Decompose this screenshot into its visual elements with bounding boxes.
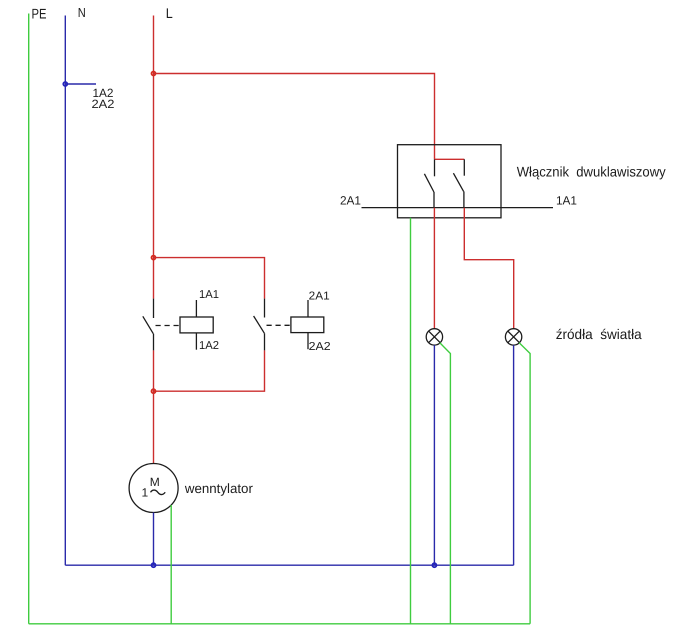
wire motor earth (green) [170,505,172,624]
coil K2 bottom lead [307,333,309,350]
svg-text:2A1: 2A1 [309,290,330,302]
pin label 1A2 (N tap) [93,86,114,100]
pin label 2A1 (switch left) [340,193,361,207]
svg-text:L: L [166,5,173,21]
svg-text:PE: PE [32,6,47,22]
pin label 2A1 (coil K2) [309,290,330,302]
wire branch top (red) [154,258,265,299]
wire PE bottom rail (green horizontal) [29,623,530,625]
wire L bus lower (red to motor) [153,350,155,463]
pin label 1A1 (switch right) [556,193,577,207]
net label PE [32,6,47,22]
svg-text:2A1: 2A1 [340,193,361,207]
switch S2 (right key) [453,159,464,207]
svg-text:1: 1 [142,486,149,500]
lamp E1 [426,329,442,345]
wire PE from switch box (green vertical) [410,218,412,624]
coil K1 bottom lead [195,333,197,350]
svg-text:wenntylator: wenntylator [184,481,253,496]
wire red feed inside switch box [435,158,465,160]
wire N tap to coil returns [65,83,96,85]
switch S1 (left key) [424,159,434,207]
wire N bottom rail (blue horizontal) [65,564,513,566]
lamp E2 [505,329,521,345]
wire switch S1 output to lamp E1 (red) [433,208,435,329]
coil K2 box [291,317,324,333]
node N tap junction [63,82,67,86]
contact K2 (branch) [254,299,265,351]
svg-text:1A1: 1A1 [556,193,577,207]
wire branch bottom (red) [154,350,265,391]
wire lamp E2 neutral (blue) [513,345,515,565]
wire L bus upper (red vertical) [153,16,155,299]
wire lamp E1 neutral (blue) [433,345,435,565]
svg-text:1A1: 1A1 [199,289,219,301]
wire motor neutral (blue) [153,513,155,566]
node lamp E1 neutral junction [432,563,436,567]
svg-text:2A2: 2A2 [309,341,331,353]
node L branch junction top [152,256,156,260]
svg-text:N: N [78,5,86,20]
pin label 2A2 (N tap) [92,97,115,111]
node L branch junction bottom [152,389,156,393]
pin label 1A2 (coil K1) [199,340,219,352]
wire N bus (blue vertical) [64,16,66,566]
svg-text:2A2: 2A2 [92,97,115,111]
svg-text:źródła światła: źródła światła [556,326,642,342]
node motor neutral junction [152,563,156,567]
wire 2A1 to 1A1 (black horizontal through box) [362,207,554,209]
mechanical link K1 (dashed) [156,325,181,327]
label Włącznik dwuklawiszowy [517,163,666,179]
net label L [166,5,173,21]
svg-text:1A2: 1A2 [199,340,219,352]
label źródła światła [556,326,642,342]
wire PE bus (green vertical) [28,14,30,624]
pin label 1A1 (coil K1) [199,289,219,301]
svg-text:Włącznik dwuklawiszowy: Włącznik dwuklawiszowy [517,163,666,179]
coil K2 top lead [307,300,309,317]
pin label 2A2 (coil K2) [309,341,331,353]
node L top junction [152,72,156,76]
wire lamp E2 earth (green) [519,343,530,624]
motor M1 [129,464,178,513]
wire lamp E1 earth (green) [440,343,451,624]
coil K1 box [180,317,213,333]
svg-text:M: M [150,475,160,489]
label wenntylator [184,481,253,496]
contact K1 (on L bus) [143,299,154,351]
net label N [78,5,86,20]
switch box outline [398,145,502,218]
wire L to switch box (red horizontal + drop) [154,74,435,160]
wire switch S2 output to lamp E2 (red) [464,208,513,329]
coil K1 top lead [195,300,197,317]
mechanical link K2 (dashed) [267,324,291,326]
